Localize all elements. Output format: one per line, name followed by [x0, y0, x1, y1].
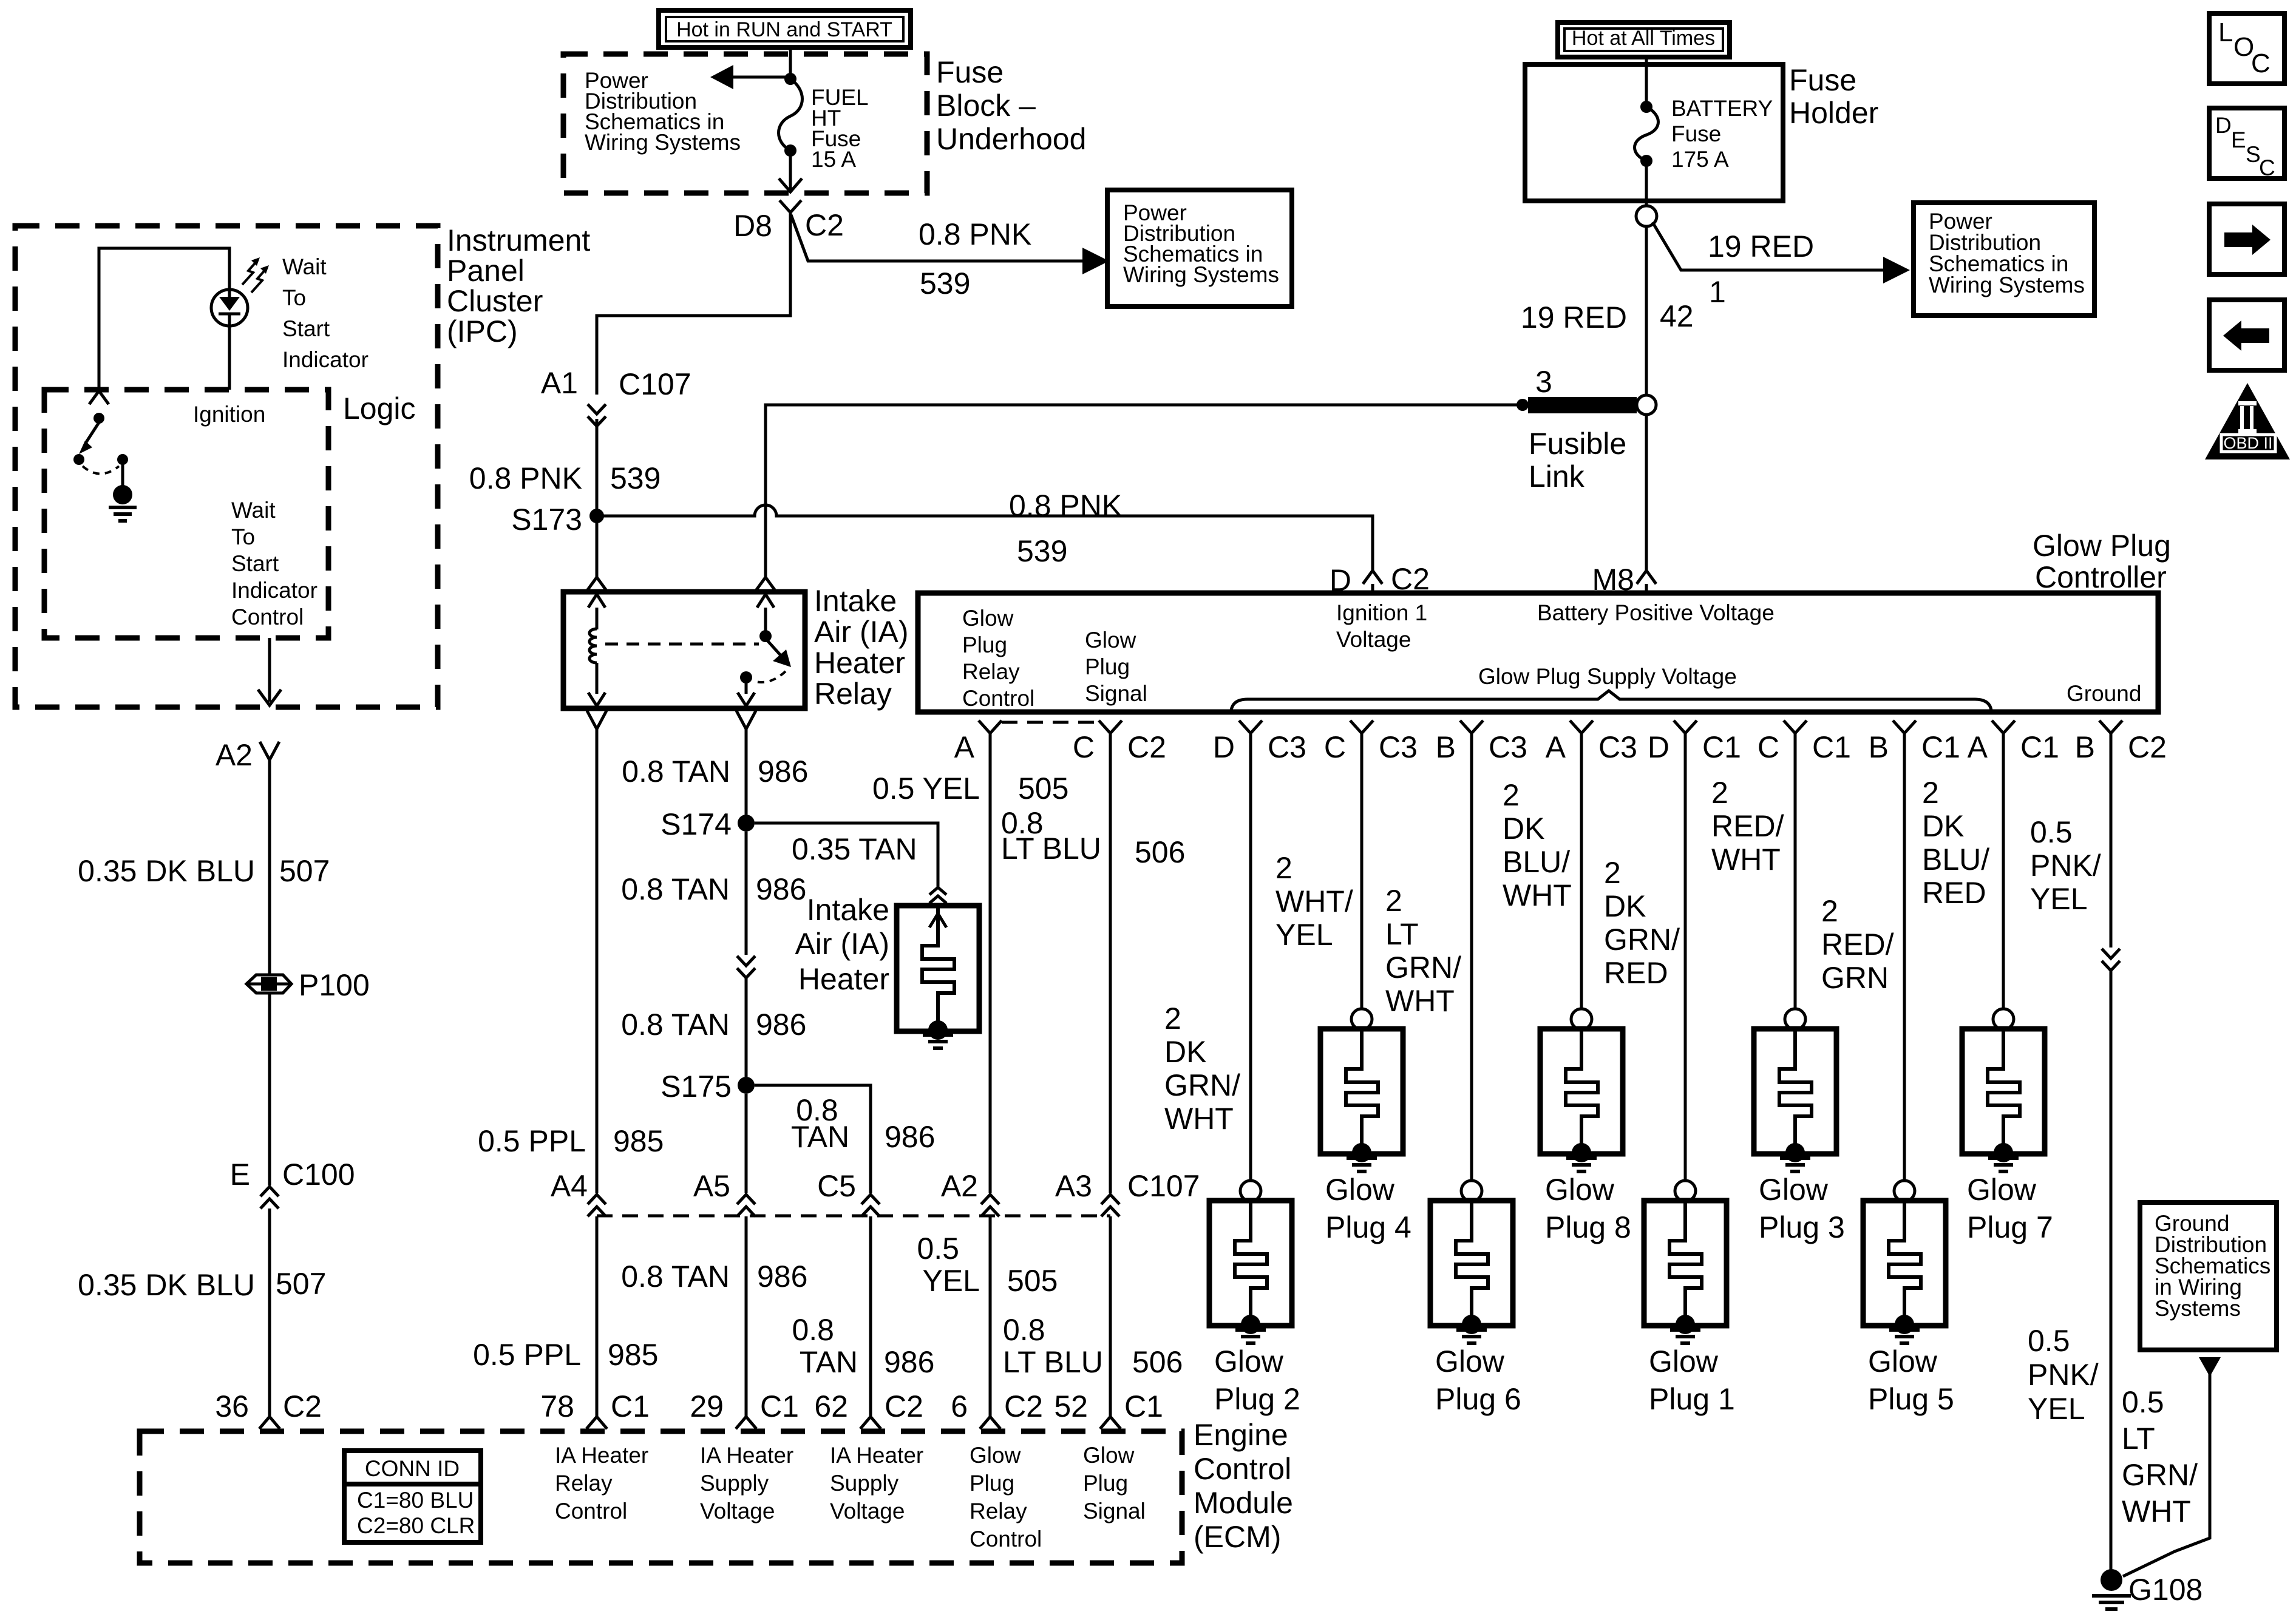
svg-text:OBD II: OBD II [2223, 434, 2272, 452]
label Logic [343, 392, 416, 425]
wire label 2 DK GRN/WHT (plug 2) [1164, 1002, 1240, 1136]
svg-text:Glow: Glow [1085, 628, 1136, 653]
svg-text:Wait: Wait [231, 498, 276, 523]
ground dot (ignition) [113, 485, 132, 504]
wire logic out arrow [258, 638, 281, 705]
svg-text:LT BLU: LT BLU [1001, 832, 1101, 866]
label pin 52 [1054, 1389, 1163, 1423]
svg-text:PNK/: PNK/ [2030, 849, 2101, 883]
svg-text:985: 985 [613, 1124, 664, 1158]
svg-text:C3: C3 [1598, 730, 1637, 764]
label Glow Plug Relay Control (controller) [962, 606, 1034, 711]
wire label 2 RED/GRN (plug 5) [1821, 894, 1894, 995]
wire label 19 RED 1 [1708, 229, 1814, 309]
svg-text:505: 505 [1007, 1264, 1058, 1298]
svg-text:Plug: Plug [970, 1471, 1014, 1496]
label A2 [216, 738, 253, 772]
svg-text:Air (IA): Air (IA) [795, 927, 889, 961]
connector controller pin funnel x=3137 [1893, 720, 1916, 733]
svg-text:986: 986 [884, 1345, 934, 1379]
wire label 0.5 YEL 505 [872, 771, 1068, 805]
fuse block dashed box (Fuse Block - Underhood) [563, 54, 927, 193]
svg-text:A2: A2 [216, 738, 253, 772]
conn id box [344, 1451, 481, 1542]
ground symbol (glow plug 8) [1566, 1158, 1597, 1171]
svg-text:RED/: RED/ [1711, 809, 1784, 843]
heater box intake air [897, 906, 979, 1031]
dashed line C107 [597, 1215, 1110, 1218]
connector relay switch pin top [756, 577, 775, 591]
wire label 2 LT GRN/WHT (plug 6) [1385, 884, 1461, 1018]
label S173 [511, 503, 582, 537]
label C2 (pin 36) [283, 1389, 322, 1423]
svg-text:BLU/: BLU/ [1503, 845, 1570, 879]
svg-text:S174: S174 [661, 807, 732, 841]
wire IPC internal top [99, 248, 229, 391]
wire label 0.5 YEL 505 (lower) [917, 1232, 1058, 1298]
wire relay switch to S174 [745, 729, 748, 815]
svg-text:Plug 6: Plug 6 [1435, 1382, 1521, 1416]
wire S173 branch to D/C2 with hop [597, 505, 1373, 571]
label box Hot in RUN and START [659, 10, 911, 47]
svg-text:Wiring Systems: Wiring Systems [1929, 273, 2085, 297]
svg-text:Module: Module [1194, 1486, 1293, 1520]
svg-text:C1: C1 [1812, 730, 1851, 764]
svg-text:Control: Control [970, 1527, 1042, 1551]
svg-text:YEL: YEL [2030, 882, 2088, 916]
svg-text:GRN/: GRN/ [1604, 923, 1680, 957]
svg-text:2: 2 [1604, 856, 1621, 890]
connector C107 inline x=1631 [981, 1195, 999, 1216]
svg-text:Plug: Plug [1083, 1471, 1128, 1496]
symbol OBD II triangle [2205, 383, 2290, 459]
wire label 0.5 PNK/YEL (lower) [2028, 1324, 2099, 1426]
label box Hot at All Times [1558, 22, 1730, 57]
wire label 0.8 LT BLU 506 (lower) [1003, 1313, 1183, 1379]
svg-text:Battery Positive Voltage: Battery Positive Voltage [1537, 600, 1775, 625]
wire label 0.8 PNK 539 (S173 branch) [1009, 489, 1122, 568]
glow plug 3 [1754, 733, 1836, 1162]
svg-text:78: 78 [540, 1389, 574, 1423]
symbol box arrow right [2209, 204, 2284, 274]
svg-text:G108: G108 [2128, 1573, 2203, 1607]
svg-text:Relay: Relay [962, 659, 1020, 684]
svg-text:Fusible: Fusible [1529, 427, 1626, 461]
ground symbol (glow plug 5) [1889, 1330, 1920, 1343]
svg-text:Glow: Glow [1967, 1173, 2037, 1207]
svg-text:Glow: Glow [1083, 1443, 1135, 1468]
svg-text:YEL: YEL [2028, 1392, 2085, 1426]
svg-text:C2: C2 [885, 1389, 923, 1423]
svg-text:Ignition 1: Ignition 1 [1336, 600, 1427, 625]
wire label 0.8 TAN 986 (above S175) [621, 1008, 806, 1042]
svg-text:Plug 8: Plug 8 [1545, 1210, 1631, 1244]
svg-text:Glow: Glow [1214, 1344, 1284, 1378]
svg-text:B: B [2075, 730, 2095, 764]
wire label 0.8 TAN 986 (below S174) [621, 872, 806, 906]
svg-text:Hot in RUN and START: Hot in RUN and START [676, 18, 892, 41]
svg-text:Hot at All Times: Hot at All Times [1572, 27, 1715, 50]
svg-text:C1: C1 [1921, 730, 1960, 764]
label C2 (controller pin) [1391, 562, 1430, 596]
label S174 [661, 807, 732, 841]
glow plug 8 [1540, 733, 1623, 1162]
svg-text:Fuse: Fuse [936, 55, 1004, 89]
svg-text:S175: S175 [661, 1070, 732, 1103]
svg-text:C100: C100 [282, 1158, 355, 1192]
wire A3 to pin 52 [1109, 1216, 1112, 1417]
svg-text:GRN/: GRN/ [1385, 951, 1461, 985]
svg-text:986: 986 [756, 872, 806, 906]
wire label 0.8 TAN 986 (lower) [621, 1259, 807, 1293]
svg-text:2: 2 [1821, 894, 1838, 928]
svg-text:C2: C2 [283, 1389, 322, 1423]
symbol box arrow left [2209, 300, 2284, 370]
svg-text:Plug 7: Plug 7 [1967, 1210, 2053, 1244]
svg-text:0.8: 0.8 [1003, 1313, 1045, 1347]
label IA Heater Supply Voltage 2 [830, 1443, 923, 1524]
svg-text:Controller: Controller [2035, 560, 2167, 594]
connector C107 inline x=1434 [861, 1195, 880, 1216]
svg-text:Glow: Glow [1325, 1173, 1395, 1207]
ground symbol (glow plug 3) [1780, 1158, 1810, 1171]
svg-text:986: 986 [756, 1008, 806, 1042]
svg-text:Underhood: Underhood [936, 122, 1086, 156]
relay switch [738, 594, 791, 706]
wire D8 down-left to A1 [597, 212, 790, 395]
svg-text:L: L [2218, 18, 2233, 47]
svg-text:42: 42 [1660, 299, 1694, 333]
svg-text:D: D [1648, 730, 1669, 764]
label Battery Positive Voltage [1537, 600, 1775, 625]
ignition switch contact dot upper [93, 413, 104, 424]
svg-text:WHT: WHT [1385, 984, 1455, 1018]
svg-text:IA Heater: IA Heater [830, 1443, 923, 1468]
wire label 0.8 PNK 539 (branch) [919, 217, 1031, 300]
svg-text:2: 2 [1711, 776, 1728, 810]
heater element [922, 906, 954, 1040]
wire label 0.5 LT GRN/WHT [2122, 1385, 2198, 1528]
svg-text:S: S [2246, 142, 2261, 167]
wire label 0.35 DK BLU 507 (upper) [78, 854, 330, 888]
svg-text:C: C [2251, 49, 2271, 78]
svg-text:Engine: Engine [1194, 1418, 1288, 1452]
svg-text:Relay: Relay [555, 1471, 613, 1496]
svg-text:S173: S173 [511, 503, 582, 537]
svg-text:C5: C5 [817, 1169, 856, 1203]
svg-text:Wiring Systems: Wiring Systems [585, 130, 741, 155]
svg-text:Air (IA): Air (IA) [814, 615, 909, 649]
svg-text:2: 2 [1164, 1002, 1181, 1036]
svg-text:E: E [2231, 127, 2246, 152]
wire A4 to pin 78 [596, 1216, 599, 1417]
svg-text:Voltage: Voltage [830, 1499, 905, 1524]
svg-text:GRN: GRN [1821, 961, 1889, 995]
label Instrument Panel Cluster (IPC) [447, 223, 590, 348]
svg-text:Start: Start [231, 551, 279, 576]
svg-text:2: 2 [1385, 884, 1402, 918]
glow plug 2 [1209, 733, 1292, 1334]
svg-text:539: 539 [1017, 534, 1067, 568]
label E (C100 pin) [230, 1158, 250, 1192]
svg-text:Intake: Intake [807, 893, 889, 927]
label D (controller pin) [1330, 563, 1351, 597]
svg-text:Supply: Supply [700, 1471, 769, 1496]
svg-text:505: 505 [1018, 771, 1068, 805]
connector M8 pin [1637, 571, 1656, 593]
label Wait To Start Indicator Control [231, 498, 318, 629]
svg-text:Plug 1: Plug 1 [1649, 1382, 1735, 1416]
svg-text:RED: RED [1604, 956, 1668, 990]
wire from Hot in RUN to fuse [789, 47, 792, 74]
label Glow Plug 1 [1649, 1344, 1735, 1416]
svg-text:Signal: Signal [1085, 681, 1147, 706]
svg-text:175 A: 175 A [1671, 147, 1729, 172]
svg-text:0.8 TAN: 0.8 TAN [621, 1259, 730, 1293]
svg-text:Fuse: Fuse [1789, 63, 1856, 97]
svg-text:0.8 PNK: 0.8 PNK [469, 461, 582, 495]
svg-text:507: 507 [276, 1267, 326, 1301]
label BATTERY Fuse 175 A [1671, 96, 1773, 172]
brace glow plug supply voltage [1231, 691, 1991, 710]
svg-text:WHT: WHT [1164, 1102, 1234, 1136]
svg-text:Panel: Panel [447, 254, 525, 288]
connector controller pin funnel x=3477 [2099, 720, 2122, 733]
svg-text:C107: C107 [1127, 1169, 1200, 1203]
wire label 0.5 PNK/YEL (upper) [2030, 815, 2101, 916]
svg-text:DK: DK [1604, 889, 1646, 923]
glow plug 5 [1863, 733, 1946, 1334]
label Ignition 1 Voltage [1336, 600, 1427, 652]
terminal circle below fuse holder [1636, 206, 1657, 226]
svg-text:2: 2 [1922, 776, 1939, 810]
LED wait to start indicator [211, 290, 248, 326]
svg-text:539: 539 [920, 266, 970, 300]
svg-text:19 RED: 19 RED [1521, 300, 1627, 334]
wire label 0.5 PPL 985 (upper) [478, 1124, 664, 1158]
connector controller pin funnel x=2605 [1570, 720, 1593, 733]
wire ground distribution to G108 [2123, 1357, 2221, 1576]
ground symbol (ignition) [109, 507, 137, 521]
svg-text:Plug 5: Plug 5 [1868, 1382, 1954, 1416]
svg-text:0.5: 0.5 [2030, 815, 2073, 849]
wire A1 to S173 [596, 419, 599, 516]
wire C100 to ECM pin 36 [268, 1209, 271, 1417]
svg-text:986: 986 [758, 754, 808, 788]
svg-text:Holder: Holder [1789, 96, 1878, 130]
svg-text:WHT: WHT [2122, 1494, 2191, 1528]
connector C107 inline x=1229 [737, 1195, 755, 1216]
svg-text:Wiring Systems: Wiring Systems [1123, 262, 1279, 287]
label M8 [1592, 563, 1634, 597]
wire C5 to pin 62 [869, 1216, 872, 1417]
svg-text:Systems: Systems [2155, 1296, 2241, 1321]
svg-text:Relay: Relay [814, 677, 892, 711]
wire label 0.8 TAN 986 (pin62) [792, 1313, 934, 1379]
svg-text:Voltage: Voltage [1336, 627, 1411, 652]
connector controller pin funnel x=2776 [1674, 720, 1697, 733]
glow plug controller box [918, 593, 2158, 712]
power distribution box 2 [1914, 203, 2094, 316]
svg-text:507: 507 [279, 854, 330, 888]
label pin 36 [215, 1389, 249, 1423]
label A1 [541, 366, 578, 400]
label Fusible Link [1529, 427, 1626, 493]
svg-text:YEL: YEL [1275, 918, 1333, 952]
connector controller pin funnel x=2060 [1239, 720, 1262, 733]
connector ECM pin 29 [736, 1417, 756, 1429]
svg-text:E: E [230, 1158, 250, 1192]
fuse FUEL HT 15A [779, 73, 803, 157]
label Fuse Block - Underhood [936, 55, 1086, 156]
wire label 0.35 DK BLU 507 (lower) [78, 1267, 326, 1302]
svg-text:Control: Control [962, 686, 1034, 711]
label S175 [661, 1070, 732, 1103]
svg-text:Glow: Glow [1435, 1344, 1505, 1378]
svg-text:Glow: Glow [970, 1443, 1021, 1468]
label Glow Plug 3 [1759, 1173, 1845, 1244]
label FUEL HT Fuse 15 A [811, 85, 869, 172]
svg-text:2: 2 [1503, 778, 1520, 812]
ground symbol (glow plug 1) [1670, 1330, 1700, 1343]
label Glow Plug 4 [1325, 1173, 1411, 1244]
label 3 (fusible link) [1535, 365, 1552, 399]
connector ECM pin 6 [980, 1417, 1000, 1429]
power distribution box 1 [1107, 190, 1292, 307]
svg-text:0.8 TAN: 0.8 TAN [621, 872, 730, 906]
fuse holder box [1525, 64, 1783, 201]
connector controller pin funnel x=2957 [1784, 720, 1807, 733]
svg-text:3: 3 [1535, 365, 1552, 399]
svg-text:0.8 PNK: 0.8 PNK [1009, 489, 1122, 523]
wire label 0.8 PNK 539 (A1) [469, 461, 661, 495]
svg-text:PNK/: PNK/ [2028, 1358, 2099, 1392]
svg-text:LT: LT [2122, 1422, 2155, 1456]
svg-text:GRN/: GRN/ [1164, 1068, 1240, 1102]
ground distribution box [2140, 1202, 2277, 1350]
ground G108 [2101, 1569, 2122, 1591]
connector D8/C2 funnel [779, 200, 801, 212]
svg-text:C107: C107 [619, 367, 691, 401]
glow plug 6 [1430, 733, 1513, 1334]
svg-text:WHT/: WHT/ [1275, 884, 1353, 918]
svg-text:LT: LT [1385, 917, 1419, 951]
svg-text:IA Heater: IA Heater [555, 1443, 648, 1468]
svg-text:985: 985 [608, 1338, 658, 1372]
label D8 [733, 209, 772, 243]
splice S175 [738, 1077, 755, 1094]
wire LED to logic box [228, 325, 231, 390]
svg-text:62: 62 [814, 1389, 848, 1423]
svg-text:0.8 PNK: 0.8 PNK [919, 217, 1031, 251]
label Ground (controller) [2067, 681, 2141, 706]
svg-text:0.8 TAN: 0.8 TAN [622, 754, 730, 788]
svg-text:0.5: 0.5 [2028, 1324, 2070, 1358]
label Glow Plug Relay Control (ECM) [970, 1443, 1042, 1551]
svg-text:Glow: Glow [962, 606, 1014, 631]
wire label 2 WHT/YEL (plug 4) [1275, 851, 1353, 952]
wire label 0.8 TAN 986 (C5 branch) [791, 1093, 936, 1154]
svg-text:Link: Link [1529, 459, 1585, 493]
label IA Heater Supply Voltage 1 [700, 1443, 793, 1524]
label pin 6 [951, 1389, 1043, 1423]
svg-text:Cluster: Cluster [447, 284, 543, 318]
svg-text:WHT: WHT [1711, 842, 1781, 876]
connector ECM pin 36 [259, 1417, 280, 1429]
label Glow Plug Signal (ECM) [1083, 1443, 1146, 1524]
svg-text:986: 986 [757, 1259, 807, 1293]
label Fuse Holder [1789, 63, 1878, 130]
svg-text:0.5: 0.5 [917, 1232, 959, 1266]
wire A2 to pin 6 [989, 1216, 992, 1417]
wire A5 to pin 29 [745, 1216, 748, 1417]
svg-text:Glow: Glow [1649, 1344, 1719, 1378]
label IA Heater Relay Control [555, 1443, 648, 1524]
svg-text:A3: A3 [1055, 1169, 1092, 1203]
wire S174 to heater [755, 823, 938, 887]
connector D/C2 pin (ignition 1 voltage) [1363, 571, 1382, 593]
svg-text:0.35 TAN: 0.35 TAN [792, 832, 917, 866]
label Glow Plug 5 [1868, 1344, 1954, 1416]
svg-text:TAN: TAN [791, 1120, 849, 1154]
label P100 [299, 968, 370, 1002]
connector controller pin funnel x=2243 [1350, 720, 1373, 733]
label G108 [2128, 1573, 2203, 1607]
ECM dashed box [140, 1431, 1182, 1563]
wire label 2 RED/WHT (plug 3) [1711, 776, 1784, 876]
svg-text:RED/: RED/ [1821, 927, 1894, 961]
label Glow Plug Controller [2033, 529, 2171, 594]
junction circle M8 feed [1637, 395, 1656, 415]
connector C107 inline x=983 [588, 1195, 606, 1216]
glow plug 7 [1962, 733, 2045, 1162]
dashed link pin A to C [1002, 721, 1099, 724]
svg-text:0.5 PPL: 0.5 PPL [478, 1124, 586, 1158]
connector ECM pin 52 [1100, 1417, 1121, 1429]
svg-text:Supply: Supply [830, 1471, 899, 1496]
relay mechanical link dashed [605, 643, 759, 646]
wire label 2 DK GRN/RED (plug 1) [1604, 856, 1680, 990]
svg-text:(ECM): (ECM) [1194, 1520, 1281, 1554]
svg-text:DK: DK [1164, 1035, 1206, 1069]
svg-text:C1: C1 [1702, 730, 1741, 764]
svg-text:A4: A4 [551, 1169, 588, 1203]
label Glow Plug 2 [1214, 1344, 1300, 1416]
svg-text:LT BLU: LT BLU [1003, 1345, 1103, 1379]
svg-text:15 A: 15 A [811, 147, 856, 172]
svg-text:DK: DK [1922, 809, 1964, 843]
svg-text:Plug: Plug [962, 632, 1007, 657]
svg-text:Plug 2: Plug 2 [1214, 1382, 1300, 1416]
svg-text:C3: C3 [1268, 730, 1306, 764]
label C100 [282, 1158, 355, 1192]
connector ECM pin 78 [586, 1417, 607, 1429]
wire pin A to A2 (0.5 YEL) [989, 733, 992, 1193]
svg-text:2: 2 [1275, 851, 1292, 885]
svg-text:A: A [1546, 730, 1566, 764]
label Glow Plug 7 [1967, 1173, 2053, 1244]
svg-text:C2: C2 [2128, 730, 2167, 764]
LED emission arrows [242, 257, 269, 293]
wire label 0.5 PPL 985 (lower) [473, 1338, 658, 1372]
connector relay switch pin bottom funnel [736, 711, 756, 729]
instrument panel cluster dashed box [15, 226, 438, 707]
wire controller ground pin down [2110, 733, 2113, 947]
svg-text:B: B [1869, 730, 1889, 764]
svg-text:GRN/: GRN/ [2122, 1458, 2198, 1492]
label pin 29 [690, 1389, 799, 1423]
svg-text:6: 6 [951, 1389, 968, 1423]
